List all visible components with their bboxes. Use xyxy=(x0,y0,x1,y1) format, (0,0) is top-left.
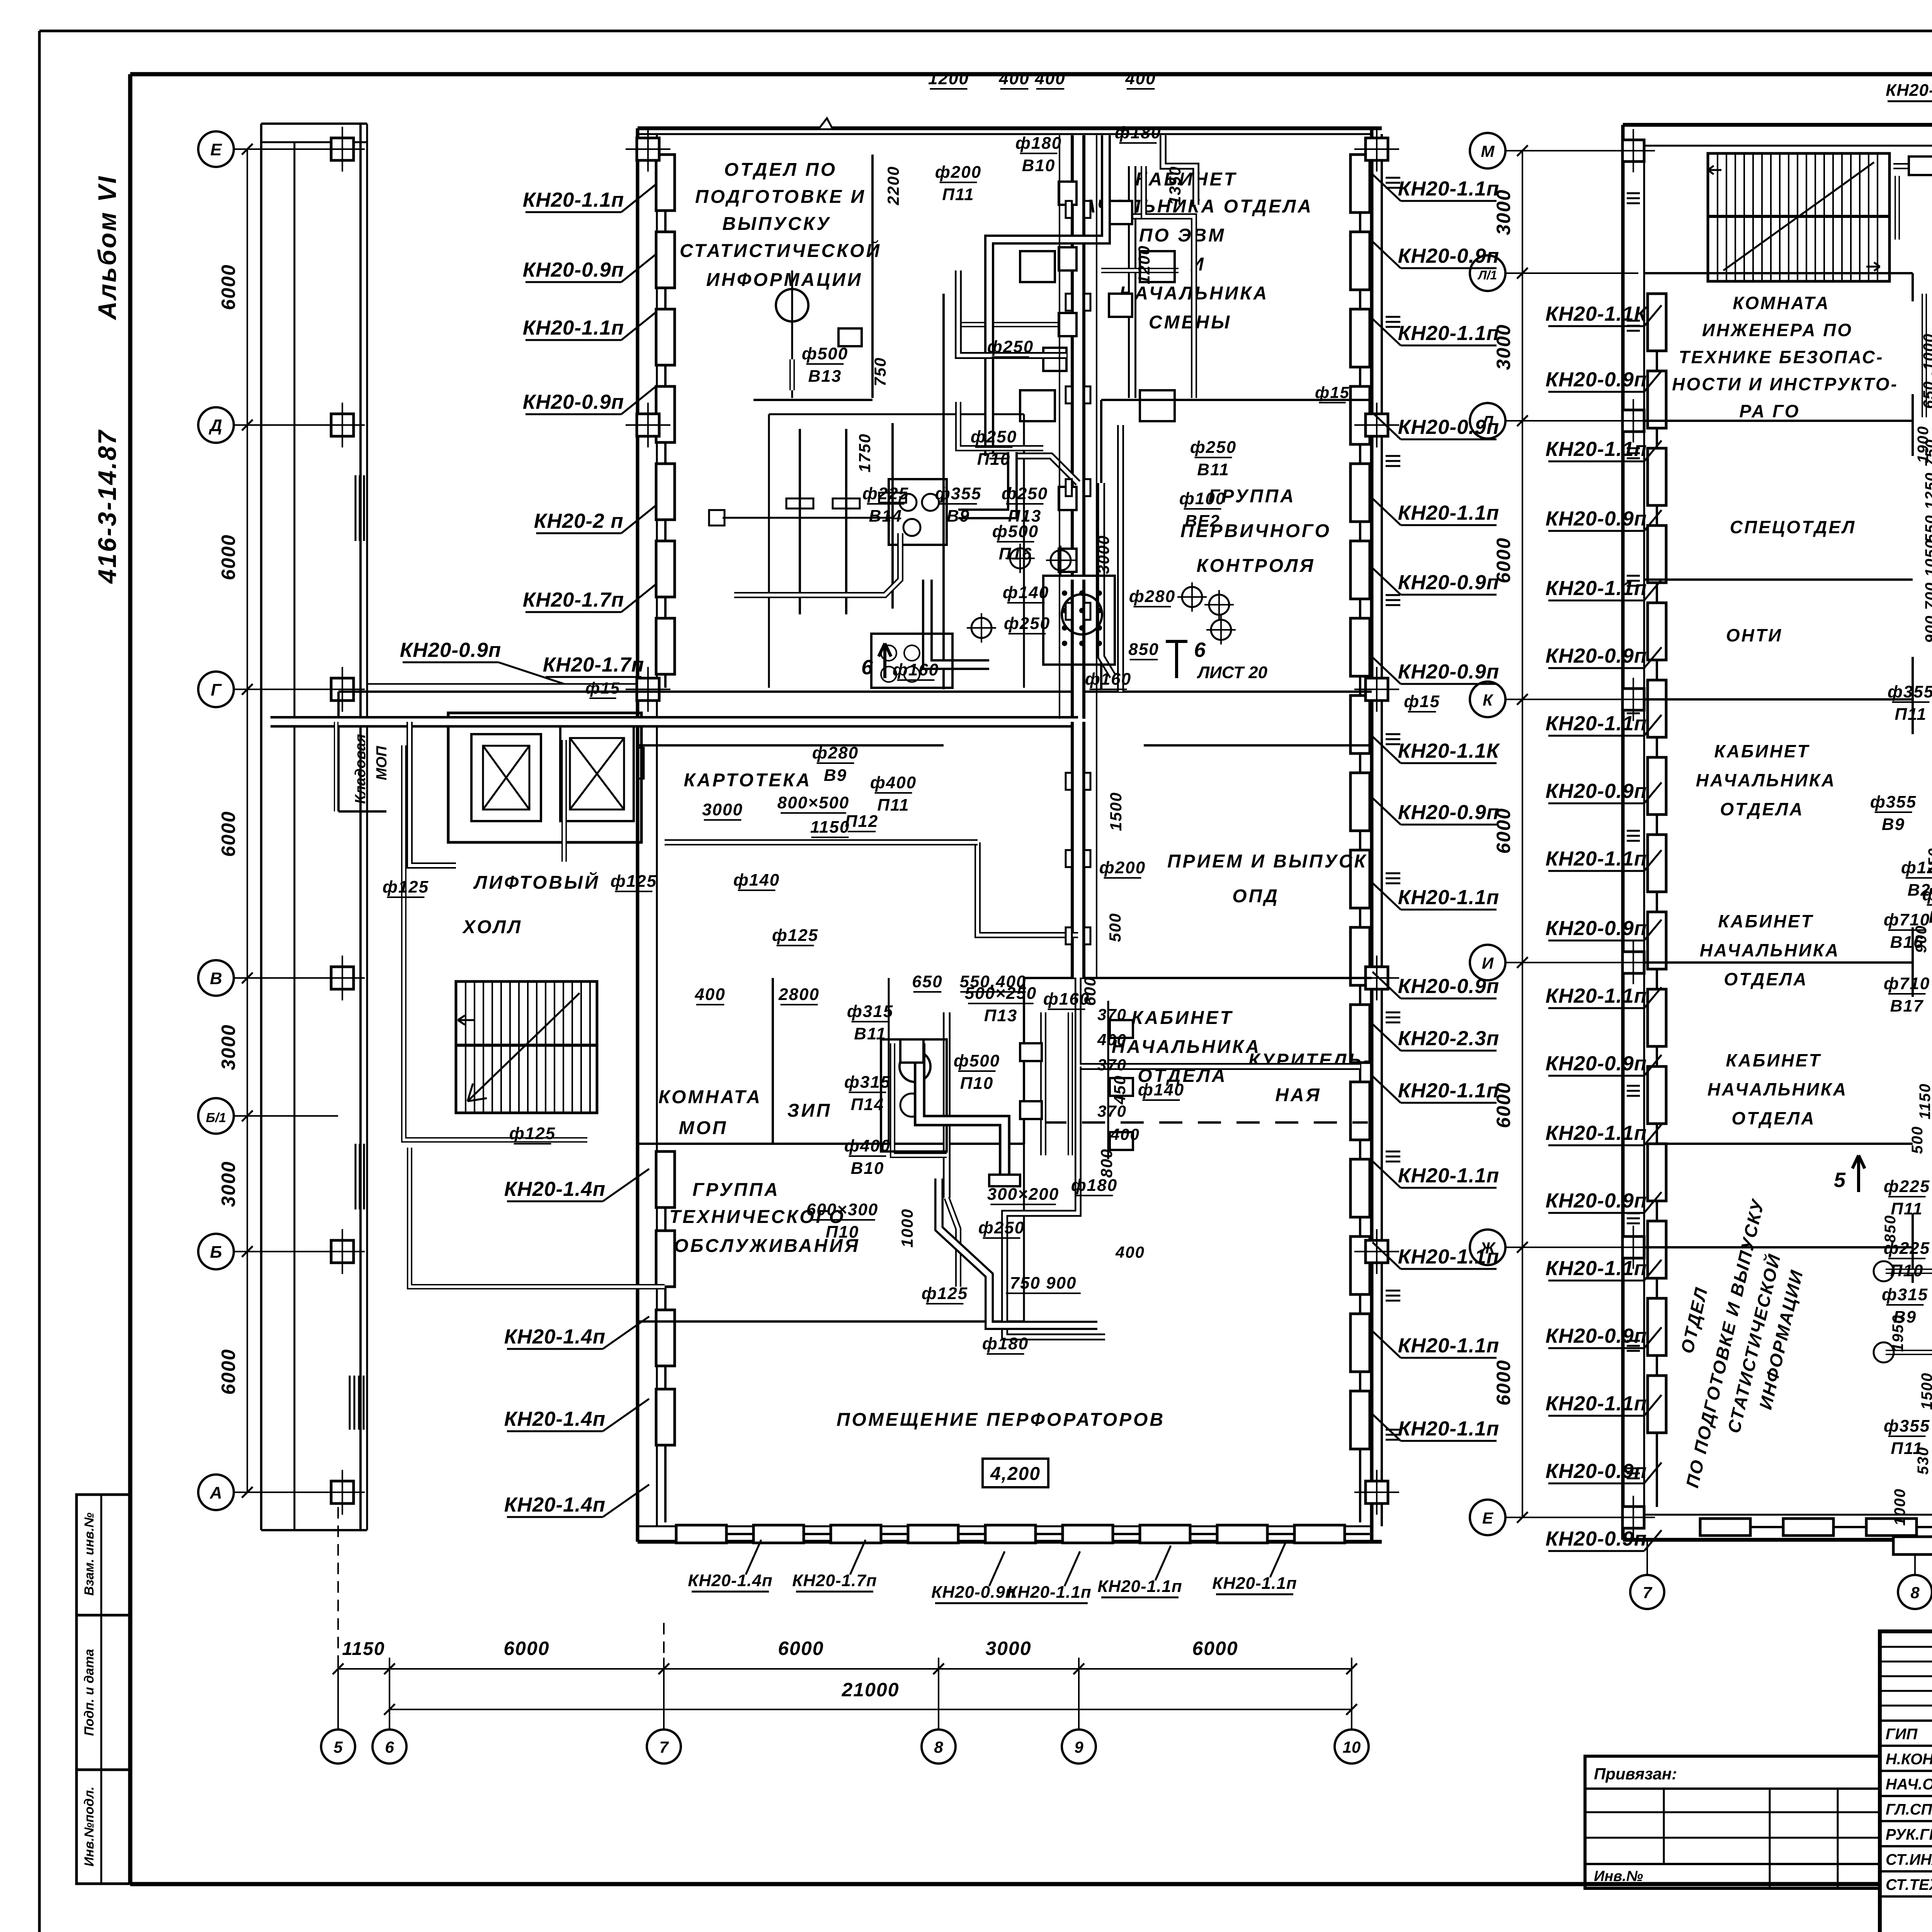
svg-text:В14: В14 xyxy=(869,507,903,526)
svg-text:1150: 1150 xyxy=(342,1639,385,1659)
svg-text:КН20-0.9п: КН20-0.9п xyxy=(1398,660,1500,683)
svg-text:КН20-1.1п: КН20-1.1п xyxy=(1097,1577,1182,1596)
svg-text:КН20-0.9п: КН20-0.9п xyxy=(1546,780,1647,803)
svg-text:КН20-0.9п: КН20-0.9п xyxy=(523,391,624,413)
svg-text:400: 400 xyxy=(694,985,725,1004)
svg-text:Е: Е xyxy=(210,140,222,159)
svg-text:СТАТИСТИЧЕСКОЙ: СТАТИСТИЧЕСКОЙ xyxy=(680,240,881,261)
svg-text:3000: 3000 xyxy=(1493,189,1514,235)
svg-text:ХОЛЛ: ХОЛЛ xyxy=(462,917,522,937)
svg-text:ГЛ.СПЕЦ.: ГЛ.СПЕЦ. xyxy=(1886,1801,1932,1818)
svg-text:Л: Л xyxy=(1481,412,1494,430)
svg-text:В17: В17 xyxy=(1890,997,1924,1015)
svg-text:ф15: ф15 xyxy=(1404,692,1440,711)
svg-text:ф355: ф355 xyxy=(1884,1417,1930,1435)
left plan: axis circles and dim chain xyxy=(198,131,234,167)
svg-text:Взам. инв.№: Взам. инв.№ xyxy=(82,1512,97,1595)
svg-text:10: 10 xyxy=(1343,1738,1361,1756)
svg-text:650: 650 xyxy=(912,972,942,991)
svg-text:П11: П11 xyxy=(1895,705,1927,724)
svg-text:600×300: 600×300 xyxy=(806,1200,879,1219)
svg-text:1900: 1900 xyxy=(1915,426,1932,463)
svg-text:7: 7 xyxy=(659,1738,669,1756)
svg-text:1000: 1000 xyxy=(898,1208,916,1247)
svg-text:1200: 1200 xyxy=(928,69,969,88)
svg-text:КН20-0.9п: КН20-0.9п xyxy=(1546,1527,1647,1550)
svg-text:КН20-1.1п: КН20-1.1п xyxy=(523,316,624,339)
svg-text:М: М xyxy=(1481,142,1495,160)
svg-text:ф180: ф180 xyxy=(1015,134,1062,153)
svg-text:1150: 1150 xyxy=(1917,1083,1932,1119)
svg-text:ТЕХНИКЕ БЕЗОПАС-: ТЕХНИКЕ БЕЗОПАС- xyxy=(1679,347,1884,367)
svg-text:8: 8 xyxy=(1910,1583,1920,1602)
svg-text:600: 600 xyxy=(1081,976,1099,1006)
svg-text:ПОМЕЩЕНИЕ ПЕРФОРАТОРОВ: ПОМЕЩЕНИЕ ПЕРФОРАТОРОВ xyxy=(837,1410,1165,1430)
svg-text:КН20-1.1п: КН20-1.1п xyxy=(1007,1583,1091,1602)
left plan main outline xyxy=(638,126,1382,130)
svg-text:900: 900 xyxy=(1913,925,1930,953)
svg-text:НАЧ.ОТД.: НАЧ.ОТД. xyxy=(1886,1776,1932,1793)
svg-text:К: К xyxy=(1483,691,1494,709)
right plan bottom axis circles xyxy=(1630,1575,1664,1609)
svg-text:ОТДЕЛА: ОТДЕЛА xyxy=(1720,799,1804,819)
svg-text:КАБИНЕТ: КАБИНЕТ xyxy=(1135,169,1237,190)
svg-text:ПО ЭВМ: ПО ЭВМ xyxy=(1139,225,1226,246)
svg-text:5: 5 xyxy=(333,1738,343,1756)
svg-text:ф250: ф250 xyxy=(971,427,1017,446)
svg-text:Привязан:: Привязан: xyxy=(1594,1765,1677,1783)
svg-text:Б: Б xyxy=(210,1243,222,1262)
svg-text:3000: 3000 xyxy=(985,1638,1031,1659)
svg-text:НАЧАЛЬНИКА: НАЧАЛЬНИКА xyxy=(1700,940,1840,960)
svg-text:КН20-0.9п: КН20-0.9п xyxy=(523,259,624,281)
svg-text:Е: Е xyxy=(1482,1509,1494,1527)
left plan narrow wing xyxy=(261,122,367,125)
svg-text:КН20-1.1п: КН20-1.1п xyxy=(1398,1417,1500,1440)
svg-text:ЛИФТОВЫЙ: ЛИФТОВЫЙ xyxy=(473,872,600,893)
svg-text:1500: 1500 xyxy=(1918,1372,1932,1410)
margin mini table bottom-left xyxy=(77,1495,130,1884)
privyazan table xyxy=(1585,1756,1880,1888)
svg-text:ф180: ф180 xyxy=(1115,123,1161,142)
svg-text:ф500: ф500 xyxy=(992,522,1039,541)
svg-text:450: 450 xyxy=(1111,1075,1129,1105)
title block xyxy=(1880,1631,1932,1932)
svg-text:ф180: ф180 xyxy=(982,1334,1029,1353)
svg-text:ф15: ф15 xyxy=(1315,383,1350,401)
svg-text:В13: В13 xyxy=(808,367,842,386)
svg-text:3000: 3000 xyxy=(1493,324,1514,370)
svg-text:КН20-0.9п: КН20-0.9п xyxy=(1546,1189,1647,1212)
svg-text:1200: 1200 xyxy=(1135,245,1153,284)
svg-text:КН20-1.1п: КН20-1.1п xyxy=(1398,177,1500,200)
svg-text:ОПД: ОПД xyxy=(1232,886,1279,906)
svg-text:КН20-1.1п: КН20-1.1п xyxy=(1546,438,1647,461)
svg-text:П10: П10 xyxy=(977,450,1011,469)
svg-text:3000: 3000 xyxy=(218,1161,239,1207)
duct flanges left plan xyxy=(1066,201,1072,218)
svg-text:КН20-1.7п: КН20-1.7п xyxy=(543,653,645,676)
svg-text:КН20-1.1п: КН20-1.1п xyxy=(1546,712,1647,735)
svg-text:Инв.№: Инв.№ xyxy=(1594,1868,1643,1884)
svg-text:Д: Д xyxy=(208,416,222,435)
svg-text:МОП: МОП xyxy=(374,746,390,780)
svg-text:ИНЖЕНЕРА ПО: ИНЖЕНЕРА ПО xyxy=(1702,320,1853,340)
svg-text:КН20-1.1п: КН20-1.1п xyxy=(1398,1334,1500,1357)
svg-text:КН20-1.1п: КН20-1.1п xyxy=(1398,1164,1500,1187)
svg-text:ф355: ф355 xyxy=(1888,682,1932,701)
svg-text:900,700,1050: 900,700,1050 xyxy=(1922,539,1932,643)
svg-text:ОТДЕЛ ПО: ОТДЕЛ ПО xyxy=(724,160,837,180)
svg-text:КН20-2.3п: КН20-2.3п xyxy=(1398,1027,1500,1050)
svg-text:850: 850 xyxy=(1882,1215,1899,1243)
svg-text:КН20-1.1п: КН20-1.1п xyxy=(1546,847,1647,870)
svg-text:ф500: ф500 xyxy=(802,344,848,363)
svg-text:РУК.ГР.: РУК.ГР. xyxy=(1886,1826,1932,1843)
svg-text:КН20-1.4п: КН20-1.4п xyxy=(504,1493,606,1516)
svg-text:ф140: ф140 xyxy=(733,871,780,889)
svg-text:Л/1: Л/1 xyxy=(1478,268,1497,282)
svg-text:П11: П11 xyxy=(877,796,909,815)
svg-text:ГРУППА: ГРУППА xyxy=(692,1180,780,1200)
svg-text:ф140: ф140 xyxy=(1003,583,1049,602)
svg-text:КН20-1.7п: КН20-1.7п xyxy=(792,1571,877,1590)
svg-text:НОСТИ И ИНСТРУКТО-: НОСТИ И ИНСТРУКТО- xyxy=(1672,374,1898,394)
svg-text:6000: 6000 xyxy=(778,1638,824,1659)
svg-text:В9: В9 xyxy=(1882,815,1905,834)
inner frame xyxy=(130,72,1932,77)
svg-text:КН20-1.1п: КН20-1.1п xyxy=(1398,502,1500,524)
svg-text:Альбом VI: Альбом VI xyxy=(93,175,121,321)
svg-text:КН20-1.1п: КН20-1.1п xyxy=(523,189,624,211)
svg-text:6: 6 xyxy=(385,1738,394,1756)
svg-text:6000: 6000 xyxy=(503,1638,549,1659)
svg-text:ПОДГОТОВКЕ И: ПОДГОТОВКЕ И xyxy=(695,187,866,207)
svg-text:800×500: 800×500 xyxy=(777,793,850,812)
svg-text:КАБИНЕТ: КАБИНЕТ xyxy=(1131,1008,1233,1028)
svg-text:СПЕЦОТДЕЛ: СПЕЦОТДЕЛ xyxy=(1730,517,1856,537)
svg-text:450: 450 xyxy=(1925,848,1932,876)
svg-text:ф15: ф15 xyxy=(585,679,620,697)
svg-text:ф140: ф140 xyxy=(1138,1080,1184,1099)
svg-text:ф250: ф250 xyxy=(1002,484,1048,503)
svg-text:КН20-1.1п: КН20-1.1п xyxy=(1546,1257,1647,1280)
svg-text:КН20-1.4п: КН20-1.4п xyxy=(504,1408,606,1430)
svg-text:500: 500 xyxy=(1909,1126,1926,1154)
svg-text:КН20-1.1К: КН20-1.1К xyxy=(1398,740,1500,762)
svg-text:КН20-0.9п: КН20-0.9п xyxy=(1398,571,1500,594)
svg-text:КН20-1.1п: КН20-1.1п xyxy=(1398,322,1500,345)
svg-text:650 ,1000: 650 ,1000 xyxy=(1920,333,1932,409)
svg-text:СТ.ТЕХН.: СТ.ТЕХН. xyxy=(1886,1876,1932,1893)
svg-text:И: И xyxy=(1482,954,1494,972)
svg-text:8: 8 xyxy=(934,1738,943,1756)
svg-text:КН20-0.9п: КН20-0.9п xyxy=(400,639,502,662)
svg-text:КН20-0.9п: КН20-0.9п xyxy=(1398,801,1500,824)
svg-text:6000: 6000 xyxy=(1192,1638,1238,1659)
right plan wall chains xyxy=(1656,294,1658,1507)
svg-text:КАБИНЕТ: КАБИНЕТ xyxy=(1726,1050,1821,1070)
svg-text:КН20-0.9п: КН20-0.9п xyxy=(1398,975,1500,998)
svg-text:П11: П11 xyxy=(942,185,974,204)
svg-text:П10: П10 xyxy=(1890,1261,1924,1280)
svg-text:КН20-0.9п: КН20-0.9п xyxy=(1546,1460,1647,1483)
svg-text:ф225: ф225 xyxy=(1884,1177,1930,1196)
svg-text:ф180: ф180 xyxy=(1071,1176,1117,1195)
svg-text:ф250: ф250 xyxy=(987,337,1034,356)
right plan partitions xyxy=(1644,272,1913,274)
svg-text:ф400: ф400 xyxy=(844,1136,891,1155)
svg-text:КН20-0.9п: КН20-0.9п xyxy=(1546,1052,1647,1075)
svg-text:6000: 6000 xyxy=(1493,808,1514,854)
right plan stairs xyxy=(1708,153,1889,281)
svg-text:6000: 6000 xyxy=(1493,537,1514,583)
svg-text:ф250: ф250 xyxy=(978,1218,1025,1237)
svg-text:400: 400 xyxy=(1034,69,1065,88)
svg-text:300×200: 300×200 xyxy=(987,1185,1060,1204)
svg-text:КН20-1.1К: КН20-1.1К xyxy=(1546,303,1648,325)
svg-text:КН20-0.9п: КН20-0.9п xyxy=(1546,1325,1647,1347)
svg-text:ф500: ф500 xyxy=(954,1051,1000,1070)
svg-text:6000: 6000 xyxy=(218,1349,239,1395)
svg-text:КН20-1.4п: КН20-1.4п xyxy=(504,1178,606,1201)
svg-text:СТ.ИНЖ.: СТ.ИНЖ. xyxy=(1886,1851,1932,1868)
svg-text:ОТДЕЛА: ОТДЕЛА xyxy=(1724,969,1808,989)
svg-text:6000: 6000 xyxy=(1493,1359,1514,1405)
svg-text:П10: П10 xyxy=(960,1074,994,1093)
left plan left wall kalorifer chain xyxy=(664,155,667,688)
svg-text:КН20-2 п: КН20-2 п xyxy=(534,510,624,532)
svg-text:370: 370 xyxy=(1097,1056,1127,1074)
svg-text:ф160: ф160 xyxy=(893,660,939,679)
svg-text:КН20-0.9п: КН20-0.9п xyxy=(1546,368,1647,391)
svg-text:КН20-1.4п: КН20-1.4п xyxy=(688,1571,772,1590)
svg-text:КН20-1.1п: КН20-1.1п xyxy=(1398,1079,1500,1102)
sheet outer border xyxy=(39,30,1932,32)
svg-text:КАБИНЕТ: КАБИНЕТ xyxy=(1718,911,1813,931)
svg-text:В9: В9 xyxy=(947,507,970,526)
kladovaya MOP xyxy=(338,690,448,693)
svg-text:9: 9 xyxy=(1074,1738,1083,1756)
svg-text:800: 800 xyxy=(1097,1148,1116,1178)
svg-text:ПРИЕМ И ВЫПУСК: ПРИЕМ И ВЫПУСК xyxy=(1167,851,1367,872)
left plan duct network xyxy=(1071,135,1085,576)
svg-text:П10: П10 xyxy=(826,1223,859,1242)
svg-text:П13: П13 xyxy=(984,1006,1018,1025)
svg-text:ф280: ф280 xyxy=(812,743,859,762)
svg-text:2200: 2200 xyxy=(884,166,902,205)
svg-text:КН20-1.1К: КН20-1.1К xyxy=(1886,81,1932,100)
svg-text:ГИП: ГИП xyxy=(1886,1726,1918,1743)
svg-text:МОП: МОП xyxy=(679,1118,728,1138)
svg-text:ф315: ф315 xyxy=(847,1002,893,1021)
elevator block xyxy=(448,713,641,842)
svg-text:750 900: 750 900 xyxy=(1010,1274,1077,1293)
svg-text:НАЧАЛЬНИКА: НАЧАЛЬНИКА xyxy=(1696,770,1836,790)
svg-text:НАЧАЛЬНИКА: НАЧАЛЬНИКА xyxy=(1112,1037,1261,1057)
svg-text:416-3-14.87: 416-3-14.87 xyxy=(93,429,121,584)
svg-text:500×250: 500×250 xyxy=(965,984,1037,1003)
left plan section marks xyxy=(879,643,891,678)
svg-text:ВЕ2: ВЕ2 xyxy=(1185,512,1220,531)
svg-text:КОМНАТА: КОМНАТА xyxy=(658,1087,762,1107)
svg-text:П12: П12 xyxy=(845,812,879,831)
svg-text:КН20-1.1п: КН20-1.1п xyxy=(1546,985,1647,1007)
svg-text:370: 370 xyxy=(1097,1005,1127,1024)
svg-text:ф355: ф355 xyxy=(1870,793,1917,811)
svg-text:400: 400 xyxy=(998,69,1029,88)
svg-text:370: 370 xyxy=(1097,1102,1127,1120)
svg-text:1350: 1350 xyxy=(1166,166,1184,205)
svg-text:КН20-0.9п: КН20-0.9п xyxy=(931,1583,1016,1602)
svg-text:А: А xyxy=(209,1483,222,1502)
right plan section marks xyxy=(1852,1155,1865,1192)
svg-text:СМЕНЫ: СМЕНЫ xyxy=(1149,312,1231,333)
svg-text:В11: В11 xyxy=(1197,460,1229,479)
svg-text:ф280: ф280 xyxy=(1129,587,1175,606)
svg-text:КОНТРОЛЯ: КОНТРОЛЯ xyxy=(1197,556,1315,576)
svg-text:Б/1: Б/1 xyxy=(206,1111,226,1125)
svg-text:КН20-1.1п: КН20-1.1п xyxy=(1212,1574,1297,1593)
svg-text:Кладовая: Кладовая xyxy=(352,734,369,804)
right plan axis circles xyxy=(1470,133,1505,168)
svg-text:6: 6 xyxy=(1194,638,1206,662)
svg-text:ОТДЕЛА: ОТДЕЛА xyxy=(1731,1108,1815,1128)
svg-text:530: 530 xyxy=(1915,1447,1932,1475)
svg-text:Ж: Ж xyxy=(1480,1239,1496,1257)
svg-text:6000: 6000 xyxy=(218,264,239,310)
svg-text:500: 500 xyxy=(1106,913,1124,942)
svg-text:2800: 2800 xyxy=(778,985,820,1004)
svg-text:ф355: ф355 xyxy=(935,484,981,503)
left plan bottom axis circles xyxy=(321,1730,355,1764)
svg-text:ф125: ф125 xyxy=(922,1284,968,1303)
svg-text:В11: В11 xyxy=(854,1024,886,1043)
svg-text:1500: 1500 xyxy=(1107,792,1125,831)
svg-text:6000: 6000 xyxy=(1493,1082,1514,1128)
svg-text:ИНФОРМАЦИИ: ИНФОРМАЦИИ xyxy=(706,270,863,290)
svg-text:Г: Г xyxy=(211,680,222,699)
svg-text:ф125: ф125 xyxy=(383,878,429,896)
svg-text:ф125: ф125 xyxy=(772,926,818,945)
svg-text:НАЯ: НАЯ xyxy=(1275,1085,1321,1105)
svg-text:ф200: ф200 xyxy=(1099,858,1146,877)
svg-text:В10: В10 xyxy=(1022,156,1056,175)
svg-text:КН20-1.7п: КН20-1.7п xyxy=(523,588,624,611)
svg-text:КН20-0.9п: КН20-0.9п xyxy=(1546,507,1647,530)
svg-text:400: 400 xyxy=(1110,1125,1140,1143)
svg-text:П14: П14 xyxy=(851,1095,884,1114)
svg-text:400: 400 xyxy=(1097,1031,1127,1049)
svg-text:КОМНАТА: КОМНАТА xyxy=(1733,293,1830,313)
svg-text:В9: В9 xyxy=(824,766,847,785)
svg-text:400: 400 xyxy=(1125,69,1156,88)
right plan top duct run xyxy=(1893,163,1932,169)
svg-text:3000: 3000 xyxy=(1094,535,1112,574)
svg-text:КН20-1.4п: КН20-1.4п xyxy=(504,1325,606,1348)
svg-text:7: 7 xyxy=(1643,1583,1652,1602)
svg-text:ф200: ф200 xyxy=(935,163,981,182)
svg-text:ф250: ф250 xyxy=(1004,614,1050,633)
svg-text:ф160: ф160 xyxy=(1085,670,1131,689)
svg-text:1950: 1950 xyxy=(1889,1315,1906,1352)
svg-text:КН20-1.1п: КН20-1.1п xyxy=(1546,1392,1647,1415)
svg-text:ф400: ф400 xyxy=(870,773,917,792)
left plan interior partitions xyxy=(1101,399,1372,401)
svg-text:ф315: ф315 xyxy=(1882,1285,1928,1304)
svg-text:ЛИСТ 20: ЛИСТ 20 xyxy=(1197,663,1268,682)
svg-text:850: 850 xyxy=(1128,640,1159,659)
left plan right wall kalorifer chain xyxy=(1359,155,1361,1522)
svg-text:П16: П16 xyxy=(999,544,1032,563)
svg-text:ЗИП: ЗИП xyxy=(787,1100,832,1121)
svg-text:В: В xyxy=(210,969,222,988)
svg-text:400: 400 xyxy=(1115,1243,1145,1261)
svg-text:КАРТОТЕКА: КАРТОТЕКА xyxy=(684,770,812,791)
svg-text:Н.КОНТР.: Н.КОНТР. xyxy=(1886,1751,1932,1768)
svg-text:Инв.№подл.: Инв.№подл. xyxy=(82,1786,97,1866)
svg-text:ф125: ф125 xyxy=(611,872,657,891)
svg-text:1150: 1150 xyxy=(810,818,850,837)
svg-text:5: 5 xyxy=(1834,1168,1846,1192)
svg-text:6000: 6000 xyxy=(218,811,239,857)
svg-text:6: 6 xyxy=(861,656,874,679)
svg-text:750: 750 xyxy=(871,357,889,386)
svg-text:В10: В10 xyxy=(851,1159,884,1178)
svg-text:КН20-1.1п: КН20-1.1п xyxy=(1546,1122,1647,1145)
svg-text:КН20-0.9п: КН20-0.9п xyxy=(1546,917,1647,940)
svg-text:КН20-1.1п: КН20-1.1п xyxy=(1398,886,1500,909)
svg-text:ВЫПУСКУ: ВЫПУСКУ xyxy=(722,214,831,234)
svg-text:КАБИНЕТ: КАБИНЕТ xyxy=(1714,741,1810,761)
stairs left plan xyxy=(456,981,597,1113)
left plan wall column marks xyxy=(1366,138,1388,160)
svg-text:ф225: ф225 xyxy=(862,484,909,503)
svg-text:3000: 3000 xyxy=(218,1024,239,1070)
svg-text:Подп. и дата: Подп. и дата xyxy=(82,1649,97,1736)
svg-text:ф315: ф315 xyxy=(844,1073,891,1092)
svg-text:21000: 21000 xyxy=(841,1679,899,1701)
svg-text:ф710: ф710 xyxy=(1884,974,1930,993)
svg-text:НАЧАЛЬНИКА: НАЧАЛЬНИКА xyxy=(1708,1079,1847,1099)
right plan outline xyxy=(1623,123,1932,127)
svg-text:КН20-1.1п: КН20-1.1п xyxy=(1546,577,1647,600)
svg-text:РА ГО: РА ГО xyxy=(1739,401,1800,421)
svg-text:ф250: ф250 xyxy=(1190,438,1236,457)
svg-text:ф200: ф200 xyxy=(1922,885,1932,904)
svg-text:1000: 1000 xyxy=(1891,1488,1908,1526)
svg-text:ф100: ф100 xyxy=(1179,489,1226,508)
svg-text:ОНТИ: ОНТИ xyxy=(1726,625,1782,645)
svg-text:6000: 6000 xyxy=(218,534,239,580)
svg-text:1750: 1750 xyxy=(855,433,874,472)
svg-text:КН20-0.9п: КН20-0.9п xyxy=(1546,645,1647,667)
svg-text:4,200: 4,200 xyxy=(990,1464,1041,1484)
svg-text:3000: 3000 xyxy=(702,800,743,819)
svg-text:ф125: ф125 xyxy=(509,1124,556,1143)
